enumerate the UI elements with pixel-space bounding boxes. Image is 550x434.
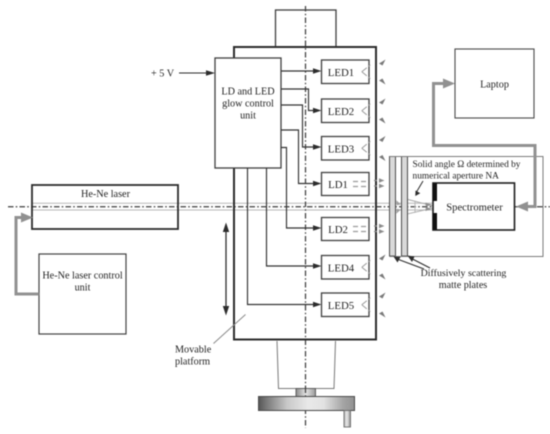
svg-text:matte plates: matte plates (439, 280, 488, 291)
wire ctrl to LED3 (281, 105, 315, 147)
wire ctrl to LED4 (267, 168, 315, 266)
LED5 emission rays (362, 298, 371, 312)
base leg (344, 411, 351, 428)
LD and LED glow control unit U-ctrl (215, 58, 281, 168)
svg-text:LED5: LED5 (328, 300, 354, 312)
LD2 internal beam dashes (353, 227, 369, 232)
svg-text:Spectrometer: Spectrometer (446, 203, 503, 214)
horizontal optical axis (dash-dot) (8, 206, 550, 208)
LED4 emission rays (362, 260, 371, 274)
movable platform pointer line (214, 315, 246, 344)
svg-text:Movable: Movable (175, 345, 212, 356)
spectrometer entrance bar lower (433, 213, 438, 230)
LED1 scattered-light arrows outside wall (379, 60, 386, 85)
spectrometer enclosure box (390, 157, 544, 257)
svg-text:unit: unit (240, 111, 256, 122)
svg-text:LED3: LED3 (328, 144, 354, 156)
LD1 box (322, 173, 370, 196)
svg-text:He-Ne laser control: He-Ne laser control (42, 271, 123, 282)
+5V arrow wire (179, 72, 208, 74)
LED1 box (322, 60, 370, 84)
LED1 emission rays (362, 65, 371, 79)
svg-text:LD2: LD2 (328, 224, 348, 236)
svg-text:Laptop: Laptop (480, 80, 509, 91)
svg-text:platform: platform (175, 357, 210, 368)
svg-text:glow control: glow control (222, 99, 274, 110)
svg-text:numerical aperture NA: numerical aperture NA (413, 171, 500, 181)
vertical rotation axis (dash-dot) (305, 6, 307, 428)
LED2 scattered-light arrows outside wall (379, 99, 386, 124)
laptop box (455, 49, 534, 118)
support column below tower (277, 341, 279, 389)
converging arrows into slit (426, 203, 433, 211)
spectrometer box (433, 183, 515, 230)
svg-text:LED2: LED2 (328, 106, 354, 118)
matte plates pointer arrow 1 (399, 260, 425, 270)
wire ctrl to LD1 (281, 130, 315, 184)
wire ctrl to LED5 (248, 168, 315, 305)
svg-text:+ 5 V: + 5 V (151, 69, 175, 80)
LD2 box (322, 218, 370, 241)
solid angle pointer arrow (417, 181, 423, 192)
LED5 scattered-light arrows outside wall (379, 293, 386, 318)
LED5 box (322, 293, 370, 317)
LD2 external dashed beam arrows (374, 226, 379, 232)
LED2 emission rays (362, 104, 371, 118)
svg-text:Solid angle Ω determined by: Solid angle Ω determined by (413, 160, 521, 170)
top shaft rectangle (276, 10, 337, 47)
platform translation double arrow (225, 229, 227, 310)
diffusive plate 1 (390, 157, 396, 257)
LED4 scattered-light arrows outside wall (379, 255, 386, 280)
LED3 box (322, 137, 370, 161)
spectrometer entrance bar upper (433, 184, 438, 202)
He-Ne laser box (32, 185, 178, 229)
acceptance cone lines (408, 200, 433, 206)
LED3 emission rays (362, 141, 371, 155)
LD1 external dashed beam arrows (374, 181, 379, 187)
movable platform tower box (234, 47, 376, 340)
LED3 scattered-light arrows outside wall (379, 136, 386, 161)
wire ctrl to LED2 (281, 89, 315, 111)
diffusive plate 2 (402, 157, 408, 257)
laser beam upper edge (32, 202, 433, 204)
pedestal block (296, 389, 316, 397)
He-Ne laser control unit box (39, 254, 126, 334)
LED4 box (322, 256, 370, 280)
svg-text:LED4: LED4 (328, 263, 355, 275)
gray power wire control unit to laser (16, 218, 39, 295)
LED2 box (322, 99, 370, 123)
svg-text:LED1: LED1 (328, 67, 354, 79)
svg-text:LD1: LD1 (328, 179, 348, 191)
svg-text:LD and LED: LD and LED (221, 87, 274, 98)
wire ctrl to LD2 (281, 148, 315, 229)
base disc (259, 397, 355, 411)
axis over pedestal (305, 388, 307, 398)
laser beam lower edge (32, 209, 433, 211)
LD1 internal beam dashes (353, 182, 369, 187)
svg-text:unit: unit (75, 283, 91, 294)
svg-text:Diffusively scattering: Diffusively scattering (421, 268, 507, 279)
svg-text:He-Ne laser: He-Ne laser (81, 189, 131, 200)
wire ctrl to LED1 (281, 70, 315, 72)
matte plates pointer arrow 2 (412, 259, 431, 269)
aperture mark (414, 201, 416, 213)
scatter arrows between plates (396, 200, 401, 214)
gray data wire spectrometer to laptop (434, 84, 536, 207)
